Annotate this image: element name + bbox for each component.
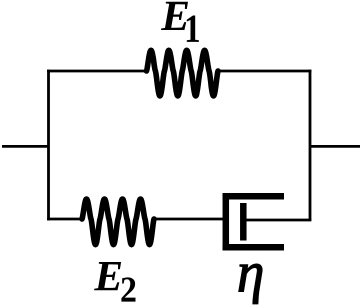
wire top branch left segment	[47, 70, 146, 73]
spring E2	[82, 199, 154, 245]
wire left vertical branch	[47, 70, 50, 221]
wire bottom branch middle segment	[154, 218, 224, 221]
label E2 letter E	[94, 262, 121, 290]
label eta	[239, 264, 262, 304]
wire right vertical branch	[309, 70, 312, 221]
label E1 subscript 1	[187, 16, 199, 42]
spring E1	[147, 50, 219, 96]
wire right lead	[310, 145, 360, 148]
dashpot eta cylinder bottom wall	[223, 244, 285, 251]
label E1 letter E	[161, 2, 188, 30]
label E2 subscript 2	[121, 277, 135, 301]
dashpot eta cylinder top wall	[223, 193, 285, 200]
dashpot eta piston plate	[240, 203, 247, 241]
wire bottom branch left segment	[47, 218, 82, 221]
dashpot eta cylinder left wall	[223, 193, 230, 251]
dashpot eta piston rod	[243, 219, 311, 222]
wire top branch right segment	[218, 70, 311, 73]
wire left lead	[2, 145, 49, 148]
